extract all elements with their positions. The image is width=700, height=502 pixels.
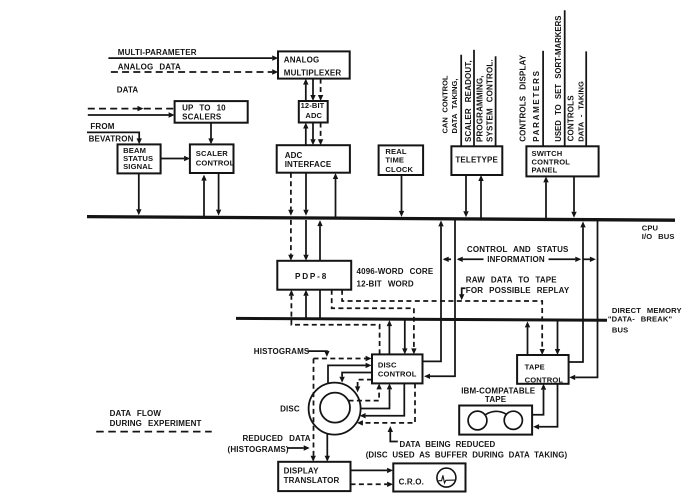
label 4096-WORD CORE — [357, 267, 434, 276]
scope screen circle — [437, 468, 456, 487]
wire teletype function line 3 — [495, 56, 497, 146]
wire dashed disc control bottom to disc — [357, 383, 415, 425]
svg-text:CONTROL AND STATUS: CONTROL AND STATUS — [467, 245, 569, 254]
wire adc up to analog multiplexer — [303, 79, 308, 101]
box TELETYPE — [451, 146, 502, 175]
label DIRECT MEMORY — [612, 306, 682, 315]
svg-text:DATA FLOW: DATA FLOW — [110, 409, 162, 418]
svg-text:ANALOG DATA: ANALOG DATA — [118, 62, 181, 71]
wire cpu bus down into tape control right — [569, 220, 597, 380]
svg-text:HISTOGRAMS: HISTOGRAMS — [254, 347, 310, 356]
box 12-BIT ADC — [299, 101, 328, 123]
svg-text:CONTROL: CONTROL — [378, 369, 417, 378]
wire dashed display translator to cro — [351, 482, 394, 487]
wire cpu bus up into adc interface — [333, 173, 338, 217]
wire real time clock down to cpu bus — [399, 175, 404, 217]
wire tape unit to tape control — [532, 384, 546, 415]
wire beam status to scaler control — [161, 156, 191, 161]
wire data-break bus up into pdp-8 bottom — [303, 290, 308, 319]
wire switch control panel down to cpu bus — [571, 176, 576, 217]
wire tape control up to data-break bus — [525, 321, 530, 355]
label DATA TAKING, — [450, 78, 459, 133]
label 12-BIT WORD — [357, 279, 414, 288]
wire scaler control down to cpu bus — [216, 173, 221, 216]
wire dashed data input to scalers — [88, 106, 174, 111]
svg-text:IBM-COMPATABLE: IBM-COMPATABLE — [461, 386, 536, 395]
svg-text:CONTROLS DISPLAY: CONTROLS DISPLAY — [518, 54, 527, 142]
label DISC — [280, 405, 300, 414]
label RAW DATA TO TAPE — [466, 275, 557, 284]
svg-text:TIME: TIME — [385, 156, 404, 165]
wire data-break bus down to tape control — [555, 320, 560, 355]
svg-text:12-BIT WORD: 12-BIT WORD — [357, 279, 414, 288]
label MULTI-PARAMETER — [118, 48, 197, 57]
svg-text:TRANSLATOR: TRANSLATOR — [284, 476, 340, 485]
label PARAMETERS — [532, 69, 541, 141]
svg-text:INFORMATION: INFORMATION — [487, 255, 545, 264]
wire teletype function line 2 — [473, 50, 475, 147]
bus direct memory data-break — [236, 318, 607, 320]
svg-text:RAW DATA TO TAPE: RAW DATA TO TAPE — [466, 275, 557, 284]
svg-text:CONTROL: CONTROL — [525, 376, 564, 385]
wire disc control bottom to disc — [360, 383, 405, 418]
svg-text:SYSTEM CONTROL.: SYSTEM CONTROL. — [485, 59, 494, 142]
label DATA — [117, 86, 139, 95]
svg-text:(DISC USED AS BUFFER DURING DA: (DISC USED AS BUFFER DURING DATA TAKING) — [366, 451, 568, 460]
label DISC USED AS BUFFER — [366, 451, 568, 460]
wire dashed adc down to adc interface — [318, 123, 323, 146]
svg-text:"DATA- BREAK": "DATA- BREAK" — [608, 315, 673, 324]
wire disc top to disc control — [328, 363, 372, 384]
label SCALER READOUT, — [464, 60, 473, 142]
wire dashed disc to disc control bottom — [349, 383, 382, 400]
svg-text:DIRECT MEMORY: DIRECT MEMORY — [612, 306, 682, 315]
wire disc to disc control bottom — [361, 383, 393, 408]
svg-text:C.R.O.: C.R.O. — [399, 478, 424, 487]
svg-text:PROGRAMMING,: PROGRAMMING, — [476, 75, 485, 142]
svg-text:MULTIPLEXER: MULTIPLEXER — [284, 69, 342, 78]
svg-text:ANALOG: ANALOG — [284, 56, 320, 65]
wire cpu bus up into switch control panel — [543, 176, 548, 219]
svg-text:CLOCK: CLOCK — [385, 165, 413, 174]
label DURING EXPERIMENT — [110, 419, 202, 428]
label CAN CONTROL — [440, 75, 449, 133]
svg-text:DATA: DATA — [117, 86, 139, 95]
bus CPU I/O — [87, 217, 675, 221]
wire dashed histograms into disc control — [314, 356, 372, 361]
wire dashed reduced data down to display translator — [311, 359, 316, 462]
box TAPE CONTROL — [517, 355, 569, 385]
wire dashed pdp-8 raw data to tape control — [342, 290, 545, 355]
label INFORMATION with double arrows — [443, 255, 596, 264]
callout arrow for possible replay — [459, 288, 466, 300]
wire analog data dashed input to analog multiplexer — [111, 69, 278, 74]
svg-text:REDUCED DATA: REDUCED DATA — [243, 434, 311, 443]
svg-text:DISC: DISC — [280, 405, 300, 414]
legend dashed line — [96, 431, 212, 433]
svg-text:TAPE: TAPE — [485, 395, 507, 404]
wire data-break bus down to disc control — [402, 319, 407, 354]
svg-text:DISPLAY: DISPLAY — [284, 466, 320, 475]
wire switch panel function line 2 — [564, 10, 566, 146]
wire switch panel function line 3 — [585, 51, 587, 146]
wire teletype down to cpu bus — [463, 175, 468, 217]
svg-text:CONTROLS: CONTROLS — [567, 95, 576, 142]
disc inner circle — [320, 393, 350, 423]
label IBM-COMPATABLE — [461, 386, 536, 395]
svg-text:ADC: ADC — [305, 111, 322, 120]
wire cpu bus down to pdp-8 — [303, 220, 308, 261]
label DATA BEING REDUCED — [400, 440, 496, 449]
wire dashed cpu bus down to pdp-8 — [288, 220, 293, 261]
scope waveform — [438, 475, 455, 483]
box DISPLAY TRANSLATOR — [278, 462, 350, 491]
wire tape control right up to cpu bus — [569, 221, 586, 362]
label FROM — [90, 122, 114, 131]
wire dashed adc interface down to cpu bus — [288, 173, 293, 216]
svg-text:CONTROL: CONTROL — [196, 158, 235, 167]
label SYSTEM CONTROL. — [485, 59, 494, 142]
box SCALER CONTROL — [190, 144, 235, 173]
svg-text:PARAMETERS: PARAMETERS — [532, 69, 541, 141]
wire tape control to tape unit — [533, 384, 557, 430]
wire pdp-8 up to cpu bus — [317, 220, 322, 261]
wire switch panel function line 1 — [542, 51, 544, 147]
label REDUCED DATA — [243, 434, 311, 443]
wire disc control right up to cpu bus — [423, 220, 444, 361]
wire dashed disc control to disc — [355, 380, 372, 393]
label CONTROLS DISPLAY — [518, 54, 527, 142]
wire pdp-8 bottom down to data-break bus — [319, 290, 321, 319]
label TAPE — [485, 395, 507, 404]
svg-text:MULTI-PARAMETER: MULTI-PARAMETER — [118, 48, 197, 57]
wire adc interface up to adc — [303, 123, 308, 146]
label FOR POSSIBLE REPLAY — [466, 286, 570, 295]
box PDP-8 — [277, 261, 351, 290]
svg-text:DATA BEING REDUCED: DATA BEING REDUCED — [400, 440, 496, 449]
svg-text:USED TO SET SORT-MARKERS: USED TO SET SORT-MARKERS — [554, 16, 563, 142]
label CPU I/O BUS — [642, 224, 675, 242]
svg-text:PANEL: PANEL — [532, 166, 558, 175]
label BEVATRON — [89, 135, 134, 144]
svg-text:12-BIT: 12-BIT — [301, 101, 325, 110]
wire cpu bus down into disc control right — [424, 219, 455, 379]
wire dashed pdp-8 to disc control — [332, 290, 417, 355]
svg-text:FOR POSSIBLE REPLAY: FOR POSSIBLE REPLAY — [466, 286, 570, 295]
label PROGRAMMING, — [476, 75, 485, 142]
wire solid input to scalers — [88, 112, 175, 117]
label (HISTOGRAMS) — [228, 445, 289, 454]
wire dashed analog multiplexer down to adc — [318, 79, 323, 101]
svg-text:REAL: REAL — [385, 147, 406, 156]
svg-text:DISC: DISC — [378, 361, 397, 370]
svg-text:4096-WORD CORE: 4096-WORD CORE — [357, 267, 434, 276]
tape reel left — [468, 411, 487, 430]
box IBM tape unit — [459, 406, 532, 435]
wire teletype function line 1 — [460, 55, 462, 147]
wire from bevatron to beam status signal — [87, 132, 142, 144]
svg-text:FROM: FROM — [90, 122, 114, 131]
box DISC CONTROL — [372, 354, 423, 383]
svg-text:DATA - TAKING: DATA - TAKING — [576, 81, 585, 142]
box ANALOG MULTIPLEXER — [278, 51, 350, 78]
label DATA - TAKING — [576, 81, 585, 142]
svg-text:SCALERS: SCALERS — [182, 113, 222, 122]
box UP TO 10 SCALERS — [175, 101, 248, 123]
svg-text:DURING EXPERIMENT: DURING EXPERIMENT — [110, 419, 202, 428]
wire disc down to display translator — [325, 434, 330, 462]
box REAL TIME CLOCK — [379, 145, 424, 175]
wire cpu bus up into scaler control — [201, 175, 206, 217]
box SWITCH CONTROL PANEL — [526, 146, 598, 176]
svg-text:UP TO 10: UP TO 10 — [182, 103, 226, 112]
svg-text:DATA TAKING,: DATA TAKING, — [450, 78, 459, 133]
svg-text:INTERFACE: INTERFACE — [285, 160, 332, 169]
label ANALOG DATA — [118, 62, 181, 71]
wire cpu bus up into teletype — [478, 175, 483, 219]
label USED TO SET SORT-MARKERS — [554, 16, 563, 142]
label DATA FLOW — [110, 409, 162, 418]
svg-text:TAPE: TAPE — [525, 363, 545, 372]
wire display translator to cro — [351, 468, 394, 473]
wire adc interface down to cpu bus — [303, 173, 308, 216]
callout arrow histograms — [308, 351, 330, 357]
box ADC INTERFACE — [277, 145, 350, 173]
callout arrow data being reduced — [388, 426, 398, 442]
wire disc control up to data-break bus — [387, 320, 392, 354]
label CONTROLS — [567, 95, 576, 142]
svg-text:SIGNAL: SIGNAL — [123, 162, 153, 171]
wire scalers to scaler control — [208, 123, 213, 145]
tape path arc — [486, 411, 507, 414]
svg-text:CAN CONTROL: CAN CONTROL — [440, 75, 449, 133]
disc outer circle — [309, 383, 361, 435]
wire adc down to adc interface — [310, 123, 315, 146]
svg-text:ADC: ADC — [285, 151, 303, 160]
tape reel right — [504, 411, 522, 429]
wire analog multiplexer down to adc — [310, 79, 315, 101]
svg-text:SCALER READOUT,: SCALER READOUT, — [464, 60, 473, 142]
box BEAM STATUS SIGNAL — [118, 144, 161, 173]
box C.R.O. — [393, 463, 465, 491]
svg-text:PDP-8: PDP-8 — [295, 272, 328, 281]
callout arrow reduced data — [288, 445, 310, 450]
wire disc control to disc top — [339, 373, 372, 383]
label BUS — [612, 326, 628, 335]
label HISTOGRAMS — [254, 347, 310, 356]
wire multi-parameter input to analog multiplexer — [108, 55, 278, 60]
label DATA-BREAK — [608, 315, 673, 324]
label CONTROL AND STATUS — [467, 245, 569, 254]
wire beam status signal down to cpu bus — [136, 173, 141, 215]
svg-text:BEVATRON: BEVATRON — [89, 135, 134, 144]
svg-text:I/O BUS: I/O BUS — [642, 232, 675, 241]
svg-text:SCALER: SCALER — [196, 149, 228, 158]
svg-text:(HISTOGRAMS): (HISTOGRAMS) — [228, 445, 289, 454]
wire dashed disc control up into pdp-8 bottom — [289, 290, 380, 355]
svg-text:BUS: BUS — [612, 326, 628, 335]
svg-text:TELETYPE: TELETYPE — [455, 156, 498, 165]
